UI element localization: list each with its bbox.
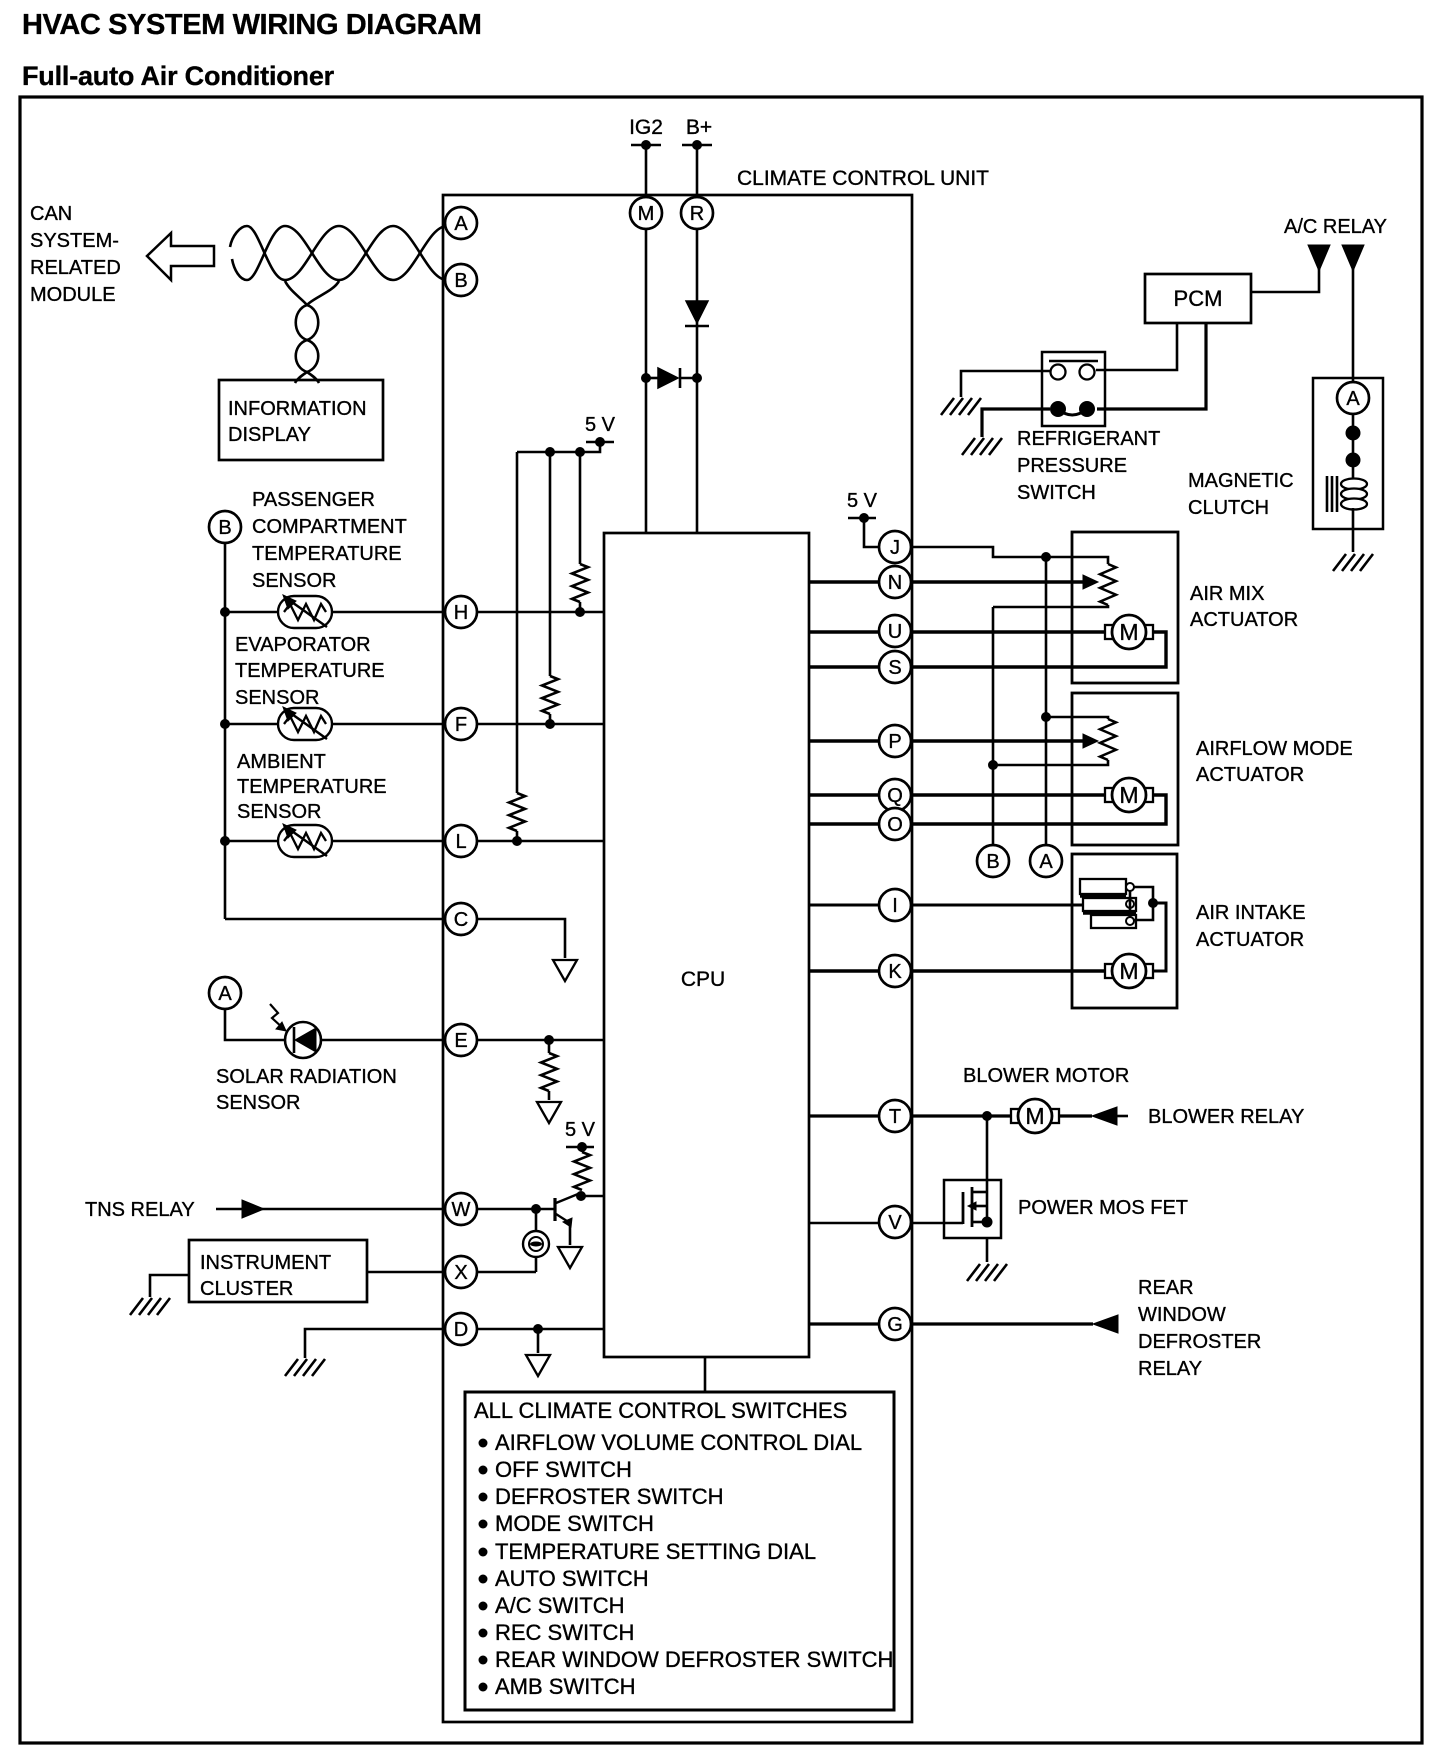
wire P to wiper (809, 739, 1083, 742)
power MOSFET Q2 box (944, 1180, 1001, 1238)
climate control unit box (443, 195, 912, 1722)
svg-text:V: V (888, 1212, 902, 1234)
wire motor return S (911, 632, 1166, 667)
wire J to pots (911, 547, 1108, 564)
svg-text:EVAPORATOR: EVAPORATOR (235, 634, 371, 656)
arrow A/C relay feed 2 (1342, 245, 1364, 271)
CPU U1 box (604, 533, 809, 1357)
svg-text:AIR MIX: AIR MIX (1190, 583, 1264, 605)
wire Q to motor (809, 793, 1106, 796)
wire CPU to switches box (704, 1357, 707, 1392)
wire IG2 to pin M (645, 145, 648, 198)
svg-text:TEMPERATURE: TEMPERATURE (235, 660, 385, 682)
svg-text:WINDOW: WINDOW (1138, 1304, 1226, 1326)
svg-text:AUTO SWITCH: AUTO SWITCH (495, 1566, 649, 1591)
pressure switch contact 4 (1079, 401, 1095, 417)
node B sensor common (209, 511, 241, 543)
svg-text:A: A (1039, 851, 1053, 873)
junction intake (1148, 898, 1158, 908)
arrow wiper air mix (1083, 575, 1098, 589)
resistor L pull-up (509, 793, 525, 831)
pin C (445, 903, 477, 935)
wire cabin sensor to H (332, 611, 445, 614)
wire 5V to J (864, 518, 878, 547)
chassis ground FET (967, 1264, 1007, 1281)
svg-text:TNS RELAY: TNS RELAY (85, 1199, 195, 1221)
svg-text:INSTRUMENT: INSTRUMENT (200, 1252, 331, 1274)
pin T (879, 1100, 911, 1132)
5V tick (586, 441, 614, 444)
airflow mode actuator box (1072, 693, 1178, 845)
svg-text:A: A (1346, 388, 1360, 410)
node A solar (209, 977, 241, 1009)
svg-text:A/C SWITCH: A/C SWITCH (495, 1593, 625, 1618)
wire switch upper to ground (961, 371, 1050, 397)
wire FET drain (986, 1116, 989, 1192)
svg-text:DEFROSTER SWITCH: DEFROSTER SWITCH (495, 1484, 724, 1509)
svg-text:M: M (1025, 1103, 1044, 1129)
magnetic clutch box (1313, 378, 1383, 529)
wire intake contacts (1129, 891, 1132, 917)
thermistor ambient temp (278, 824, 332, 857)
svg-text:OFF SWITCH: OFF SWITCH (495, 1457, 632, 1482)
svg-text:SENSOR: SENSOR (252, 570, 336, 592)
wire A to photodiode (225, 1009, 284, 1040)
svg-text:DISPLAY: DISPLAY (228, 424, 311, 446)
svg-text:M: M (1119, 958, 1138, 984)
pin I (879, 889, 911, 921)
intake switch plate 2 bar (1083, 911, 1136, 914)
motor air mix (1105, 615, 1153, 649)
svg-text:PRESSURE: PRESSURE (1017, 455, 1127, 477)
wire to ambient sensor (225, 840, 278, 843)
wire cluster ground (150, 1275, 189, 1297)
wire emitter to ground (569, 1223, 572, 1245)
information display box (219, 380, 383, 460)
wire clutch to ground (1352, 508, 1355, 552)
junction L line (512, 836, 522, 846)
wire to cabin sensor (225, 611, 278, 614)
svg-text:5 V: 5 V (847, 490, 878, 512)
pin L (445, 825, 477, 857)
wire H line to CPU (477, 611, 604, 614)
pin O (879, 808, 911, 840)
wire G line (809, 1322, 1093, 1325)
potentiometer airflow mode (1100, 719, 1116, 760)
chassis ground D (285, 1359, 325, 1376)
arrow TNS into W (242, 1200, 264, 1218)
clutch coil core (1326, 476, 1329, 512)
junction collector node (576, 1191, 586, 1201)
svg-text:POWER MOS FET: POWER MOS FET (1018, 1197, 1188, 1219)
pin P (879, 725, 911, 757)
svg-text:CLIMATE CONTROL UNIT: CLIMATE CONTROL UNIT (737, 167, 989, 190)
all climate control switches box (465, 1392, 894, 1710)
junction common-L (220, 836, 230, 846)
wire sensor common vertical (224, 543, 227, 919)
ground arrow C (553, 960, 577, 981)
pin W (445, 1193, 477, 1225)
svg-text:TEMPERATURE: TEMPERATURE (237, 776, 387, 798)
svg-text:RELATED: RELATED (30, 257, 121, 279)
svg-text:TEMPERATURE SETTING DIAL: TEMPERATURE SETTING DIAL (495, 1539, 816, 1564)
resistor E divider (541, 1053, 557, 1091)
intake contact pin 1 (1126, 883, 1134, 891)
wire A sense vertical (1045, 557, 1048, 845)
pressure switch top bar (1049, 360, 1098, 363)
pin U (879, 615, 911, 647)
svg-text:O: O (887, 814, 903, 836)
svg-text:E: E (454, 1030, 467, 1052)
transistor Q1 NPN (555, 1194, 578, 1227)
wire L pullup lower (516, 831, 519, 841)
wire PCM out 1 (1096, 323, 1177, 370)
wire TNS relay stub (216, 1208, 242, 1211)
wire F pullup upper (549, 452, 552, 676)
wire H pullup lower (579, 602, 582, 612)
wire V line (809, 1222, 944, 1225)
wire N to wiper (809, 580, 1083, 583)
svg-text:PCM: PCM (1174, 286, 1223, 311)
junction J-A line (1041, 552, 1051, 562)
wire B to air mix pot bottom (993, 605, 1108, 607)
svg-text:PASSENGER: PASSENGER (252, 489, 375, 511)
wire M vertical to CPU (645, 229, 648, 533)
wire D gnd stub (537, 1329, 540, 1353)
wire relay2 to clutch (1352, 268, 1355, 382)
svg-text:Full-auto Air Conditioner: Full-auto Air Conditioner (22, 61, 335, 91)
clutch contact dot 1 (1346, 426, 1361, 441)
B+ terminal tick (682, 144, 712, 147)
wire intake junction to motor (1153, 903, 1166, 971)
svg-text:HVAC SYSTEM WIRING DIAGRAM: HVAC SYSTEM WIRING DIAGRAM (22, 9, 482, 41)
junction rail-F (545, 447, 555, 457)
svg-text:BLOWER RELAY: BLOWER RELAY (1148, 1106, 1304, 1128)
pin H (445, 596, 477, 628)
svg-text:W: W (452, 1199, 471, 1221)
svg-text:C: C (454, 909, 468, 931)
svg-text:P: P (888, 731, 901, 753)
junction H line (575, 607, 585, 617)
svg-text:CPU: CPU (681, 968, 725, 991)
ground arrow E (537, 1102, 561, 1123)
junction F line (545, 719, 555, 729)
svg-text:5 V: 5 V (565, 1119, 596, 1141)
svg-text:CAN: CAN (30, 203, 72, 225)
resistor F pull-up (542, 676, 558, 714)
svg-text:B: B (454, 270, 467, 292)
pin V (879, 1206, 911, 1238)
svg-text:D: D (454, 1319, 468, 1341)
svg-text:ALL CLIMATE CONTROL SWITCHES: ALL CLIMATE CONTROL SWITCHES (474, 1398, 847, 1423)
wire L line to CPU (477, 840, 604, 843)
svg-text:G: G (887, 1314, 903, 1336)
5V tick lamp (566, 1146, 594, 1149)
CAN block arrow (147, 233, 214, 280)
svg-text:MODE SWITCH: MODE SWITCH (495, 1511, 654, 1536)
svg-text:SWITCH: SWITCH (1017, 482, 1096, 504)
arrow wiper airflow (1083, 734, 1098, 748)
svg-text:RELAY: RELAY (1138, 1358, 1202, 1380)
pin E (445, 1024, 477, 1056)
wire L pullup upper (516, 452, 519, 793)
svg-text:CLUSTER: CLUSTER (200, 1278, 293, 1300)
svg-text:SENSOR: SENSOR (216, 1092, 300, 1114)
intake switch plate 1 (1080, 879, 1126, 894)
svg-text:U: U (888, 621, 902, 643)
svg-text:T: T (889, 1106, 901, 1128)
pin J (879, 531, 911, 563)
diode D1 on R line (686, 301, 708, 323)
wire D line to CPU (477, 1328, 604, 1331)
wire switch lower to ground (982, 409, 1050, 437)
wire F pullup lower (549, 714, 552, 724)
chassis ground clutch (1333, 554, 1373, 571)
wire to evap sensor (225, 723, 278, 726)
junction rail-H (575, 447, 585, 457)
wire E divider lower (548, 1091, 551, 1100)
air intake actuator box (1072, 854, 1177, 1008)
wire photodiode to E (321, 1039, 445, 1042)
intake switch plate 3 (1091, 915, 1136, 928)
chassis ground switch lower (962, 438, 1002, 455)
svg-text:COMPARTMENT: COMPARTMENT (252, 516, 407, 538)
wire B+ to pin R (696, 145, 699, 198)
photodiode solar sensor (270, 1004, 321, 1058)
pin B (CAN) (445, 264, 477, 296)
wire intake to motor (1134, 887, 1153, 920)
wire relay1 to PCM (1251, 268, 1319, 292)
svg-text:F: F (455, 714, 467, 736)
pressure switch contact 3 (1050, 401, 1066, 417)
svg-text:BLOWER MOTOR: BLOWER MOTOR (963, 1065, 1129, 1087)
instrument cluster box (189, 1240, 367, 1302)
diode D2 M to R (646, 377, 658, 380)
wire 5V rail (517, 442, 600, 452)
svg-text:REAR: REAR (1138, 1277, 1194, 1299)
wire X line (477, 1271, 536, 1274)
wire relay stub (1117, 1115, 1128, 1118)
svg-text:B: B (218, 517, 231, 539)
svg-text:A: A (454, 213, 468, 235)
svg-text:DEFROSTER: DEFROSTER (1138, 1331, 1261, 1353)
node A sense (1030, 845, 1062, 877)
svg-text:Q: Q (887, 785, 903, 807)
wire K to motor (809, 969, 1106, 972)
pin N (879, 566, 911, 598)
lamp illumination (523, 1231, 549, 1257)
junction W-lamp (531, 1204, 541, 1214)
intake contact pin 2 (1126, 900, 1134, 908)
chassis ground cluster (130, 1298, 170, 1315)
switch list text (474, 1398, 893, 1699)
pin K (879, 955, 911, 987)
pin F (445, 708, 477, 740)
pressure switch contact 2 (1080, 365, 1095, 380)
svg-text:AIR INTAKE: AIR INTAKE (1196, 902, 1306, 924)
pin G (879, 1308, 911, 1340)
wire E line to CPU (477, 1039, 604, 1042)
wire H pullup upper (579, 452, 582, 564)
junction D line (533, 1324, 543, 1334)
wire B sense vertical (992, 607, 995, 845)
svg-text:REC SWITCH: REC SWITCH (495, 1620, 634, 1645)
wire B to airflow pot bottom (993, 760, 1108, 765)
pin S (879, 651, 911, 683)
svg-text:M: M (1119, 782, 1138, 808)
ground arrow emitter (558, 1247, 582, 1268)
svg-text:ACTUATOR: ACTUATOR (1196, 929, 1304, 951)
svg-text:MAGNETIC: MAGNETIC (1188, 470, 1294, 492)
wire E divider upper (548, 1040, 551, 1053)
svg-text:A: A (218, 983, 232, 1005)
svg-text:MODULE: MODULE (30, 284, 116, 306)
wire S into CPU (809, 665, 878, 668)
wire CAN twisted pair (230, 226, 447, 280)
wire TNS to W (262, 1208, 445, 1211)
pin X (445, 1256, 477, 1288)
wire X to lamp (367, 1271, 445, 1274)
svg-text:L: L (455, 831, 466, 853)
svg-text:J: J (890, 537, 900, 559)
wire F line to CPU (477, 723, 604, 726)
wire A to airflow pot top (1046, 717, 1108, 719)
junction R-diode (692, 373, 702, 383)
wire R vertical to CPU (696, 229, 699, 533)
pin A (CAN) (445, 207, 477, 239)
wire common to C (225, 918, 445, 921)
ground arrow D (526, 1355, 550, 1376)
svg-text:REFRIGERANT: REFRIGERANT (1017, 428, 1160, 450)
wire ambient sensor to L (332, 840, 445, 843)
wire D left ground (305, 1329, 445, 1358)
MOSFET Q2 symbol (944, 1187, 993, 1228)
svg-text:REAR WINDOW DEFROSTER SWITCH: REAR WINDOW DEFROSTER SWITCH (495, 1647, 893, 1672)
wire clutch internal (1352, 414, 1355, 478)
svg-text:SOLAR RADIATION: SOLAR RADIATION (216, 1066, 397, 1088)
wire collector node to CPU (581, 1195, 604, 1198)
refrigerant pressure switch box (1042, 352, 1105, 426)
wire U to motor (809, 630, 1106, 633)
svg-text:INFORMATION: INFORMATION (228, 398, 367, 420)
svg-text:SENSOR: SENSOR (237, 801, 321, 823)
svg-text:ACTUATOR: ACTUATOR (1196, 764, 1304, 786)
resistor H pull-up (572, 564, 588, 602)
motor blower (1011, 1099, 1059, 1133)
svg-text:5 V: 5 V (585, 414, 616, 436)
arrow from defroster relay (1093, 1315, 1118, 1333)
5V tick actuator (848, 517, 876, 520)
svg-text:IG2: IG2 (629, 116, 663, 139)
svg-text:M: M (638, 203, 655, 225)
pressure switch contact 1 (1051, 365, 1066, 380)
wire I line (809, 904, 1083, 907)
junction M-diode (641, 373, 651, 383)
clutch contact dot 2 (1346, 453, 1361, 468)
svg-text:S: S (888, 657, 901, 679)
wire 5V to resistor (581, 1147, 584, 1152)
wire T line (809, 1114, 1012, 1117)
wire evap sensor to F (332, 723, 445, 726)
IG2 terminal tick (631, 144, 661, 147)
svg-text:M: M (1119, 619, 1138, 645)
svg-text:TEMPERATURE: TEMPERATURE (252, 543, 402, 565)
arrow from blower relay (1092, 1107, 1117, 1125)
intake contact pin 3 (1126, 917, 1134, 925)
junction E line (544, 1035, 554, 1045)
svg-text:A/C RELAY: A/C RELAY (1284, 216, 1387, 238)
svg-text:R: R (690, 203, 704, 225)
potentiometer air mix (1100, 564, 1116, 605)
thermistor evaporator temp (278, 707, 332, 740)
wire lamp lower (535, 1257, 538, 1272)
chassis ground switch upper (941, 398, 981, 415)
svg-text:X: X (454, 1262, 467, 1284)
svg-text:SYSTEM-: SYSTEM- (30, 230, 119, 252)
motor airflow mode (1105, 778, 1153, 812)
wire FET source to ground (986, 1238, 989, 1262)
air mix actuator box (1072, 532, 1178, 683)
wire lamp upper (535, 1209, 538, 1231)
motor air intake (1105, 954, 1153, 988)
node B sense (977, 845, 1009, 877)
svg-text:B: B (986, 851, 999, 873)
junction common-F (220, 719, 230, 729)
junction B-airflow (988, 760, 998, 770)
junction common-H (220, 607, 230, 617)
wire twisted drop to display (285, 281, 339, 383)
wire PCM out 2 (1097, 323, 1206, 409)
pin R (681, 197, 713, 229)
svg-text:K: K (888, 961, 902, 983)
wire W to base (477, 1208, 555, 1211)
svg-text:CLUTCH: CLUTCH (1188, 497, 1269, 519)
svg-text:H: H (454, 602, 468, 624)
junction A-airflow (1041, 712, 1051, 722)
svg-text:B+: B+ (686, 116, 712, 139)
svg-text:I: I (892, 895, 898, 917)
intake switch plate 2 (1083, 898, 1136, 911)
svg-text:AMBIENT: AMBIENT (237, 751, 326, 773)
wire O into CPU (809, 822, 878, 825)
clutch pin A (1337, 382, 1369, 414)
pin D (445, 1313, 477, 1345)
junction T-FET (982, 1111, 992, 1121)
clutch coil (1341, 479, 1367, 510)
pin M (630, 197, 662, 229)
PCM box (1145, 274, 1251, 323)
thermistor cabin temp (278, 595, 332, 628)
svg-text:ACTUATOR: ACTUATOR (1190, 609, 1298, 631)
svg-text:AIRFLOW VOLUME CONTROL DIAL: AIRFLOW VOLUME CONTROL DIAL (495, 1430, 862, 1455)
svg-text:SENSOR: SENSOR (235, 687, 319, 709)
svg-text:AIRFLOW MODE: AIRFLOW MODE (1196, 738, 1353, 760)
pressure switch bridge (1058, 409, 1087, 415)
wire motor return O (911, 795, 1166, 824)
pin Q (879, 779, 911, 811)
svg-text:AMB SWITCH: AMB SWITCH (495, 1674, 636, 1699)
resistor lamp pull-up (574, 1152, 590, 1190)
wire blower to relay (1059, 1114, 1092, 1117)
svg-text:N: N (888, 572, 902, 594)
intake switch plate 1 bar (1080, 894, 1126, 897)
arrow A/C relay feed 1 (1308, 245, 1330, 271)
wire C line (477, 919, 565, 958)
